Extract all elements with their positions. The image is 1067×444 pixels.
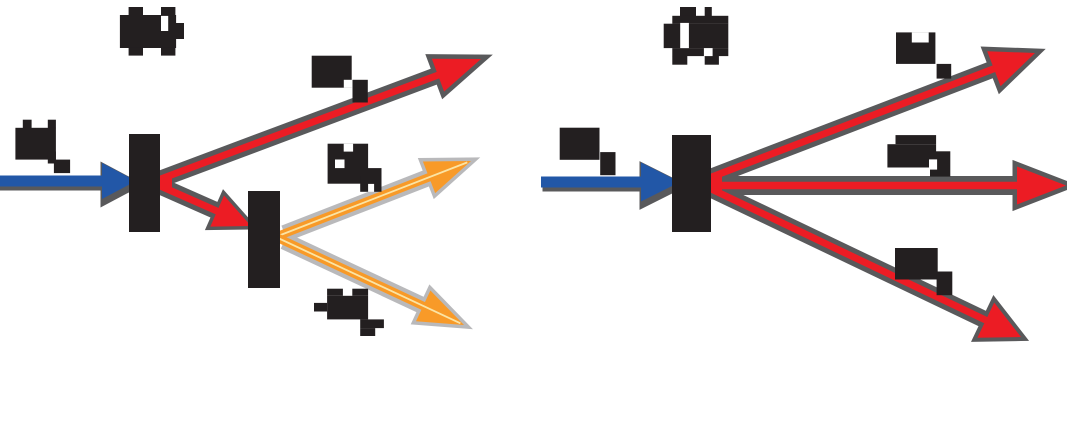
orange arrows gray halo (a) — [285, 161, 472, 234]
short red arrow to block 2 (a) — [158, 185, 251, 227]
black target block (b) — [672, 135, 711, 232]
red vertex wedge (a) — [158, 175, 172, 192]
red arrow M_3 (b) — [709, 188, 1021, 338]
label M_r (a) — [314, 289, 384, 336]
red arrow M_1 (b) — [709, 51, 1035, 178]
orange arrow M_2 (a) — [278, 161, 471, 236]
label M_A (b) — [560, 128, 616, 176]
label M_2 (b) — [887, 135, 950, 177]
black target block 1 (a) — [129, 134, 160, 232]
black target block 2 (a) — [248, 191, 280, 288]
red vertex wedge (b) — [708, 173, 722, 195]
blue incoming arrow M_A (b) — [543, 166, 682, 205]
label M_1 (a) — [312, 56, 368, 103]
red arrow M_2 (b) — [709, 167, 1066, 205]
red arrows gray halo (b) — [712, 51, 1035, 177]
blue incoming arrow M_A (a) — [0, 167, 138, 203]
label M_2 (a) — [328, 144, 382, 192]
label (a) — [120, 7, 184, 56]
label M_1 (b) — [896, 32, 951, 78]
label (b) — [664, 7, 729, 65]
label M_3 (b) — [895, 248, 952, 295]
red arrows gray halo (a) — [161, 59, 481, 179]
orange arrow M_r (a) — [278, 238, 464, 325]
label M_A (a) — [15, 120, 70, 173]
red arrow M_1 (a) — [158, 59, 481, 180]
